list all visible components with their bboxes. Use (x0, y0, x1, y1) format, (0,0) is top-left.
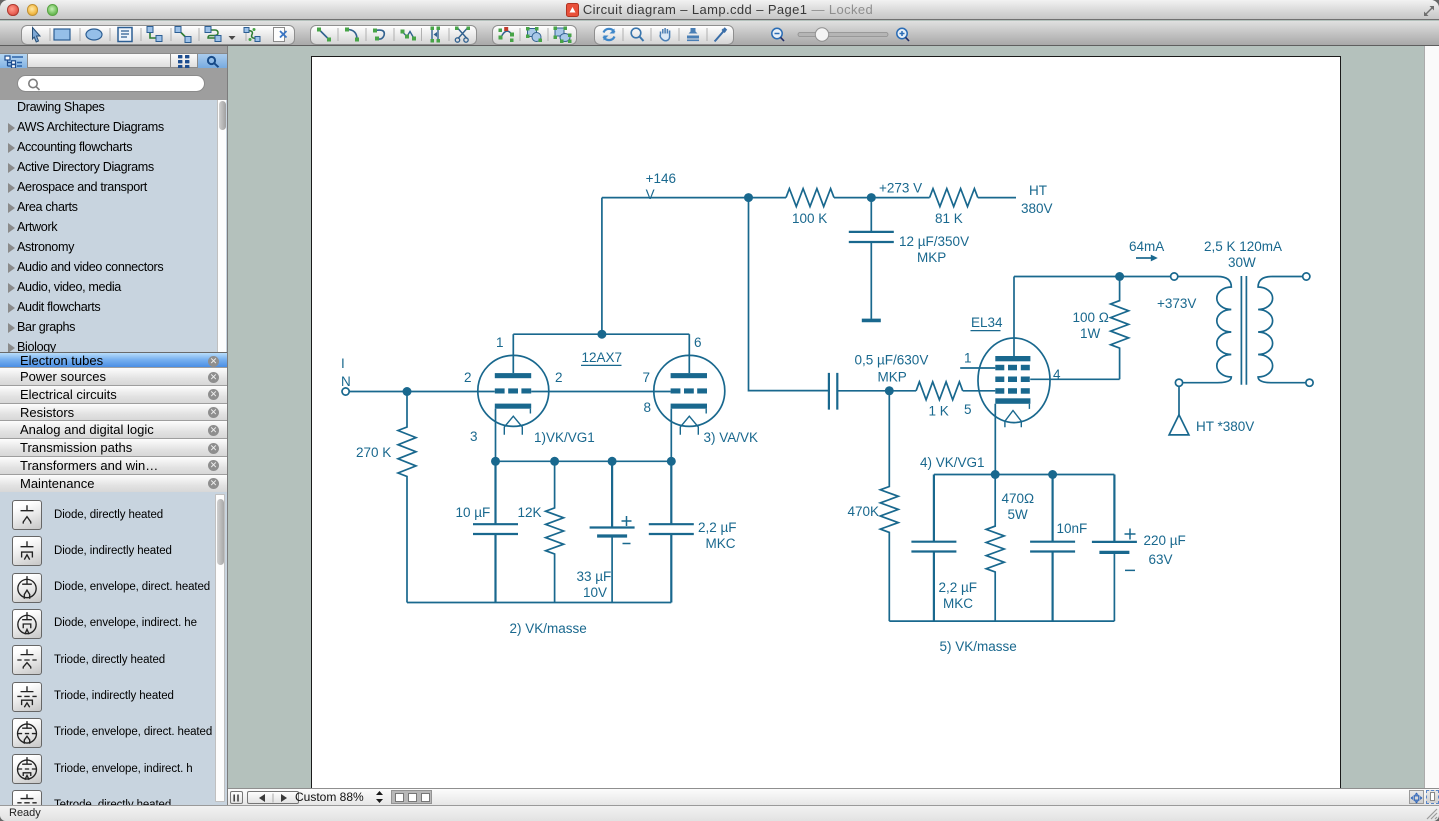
label 2) VK/masse (510, 621, 587, 636)
capacitor 2,2uF MKC left (649, 461, 694, 602)
resistor 270K (398, 392, 416, 603)
label 1 K (929, 404, 949, 419)
wire cap to grid node (837, 390, 916, 392)
arrow 64mA (1136, 255, 1158, 262)
label 33 uF 10V (577, 569, 612, 600)
terminal secondary top (1303, 273, 1310, 280)
wire tube1 cathode riser (495, 409, 497, 462)
connector line tool (175, 27, 191, 43)
zoom out button (772, 28, 784, 41)
label pin6 (694, 335, 702, 350)
label 0,5 uF/630V MKP (855, 353, 929, 385)
terminal secondary bottom (1306, 379, 1313, 386)
scissors tool (455, 27, 470, 43)
label 3) VA/VK (704, 430, 759, 445)
resistor 100K (786, 189, 834, 207)
label pin3 (470, 429, 478, 444)
wire cathode bus section 4 (934, 474, 1115, 476)
tube V2 EL34 pentode (978, 338, 1050, 427)
label 100ohm 1W (1073, 310, 1109, 341)
HT ground triangle (1169, 415, 1189, 435)
resistor 12K (546, 461, 564, 602)
label 100 K (792, 211, 827, 226)
terminal primary top (1171, 273, 1178, 280)
edit shape tool (526, 27, 542, 42)
label 2,2 uF MKC right (939, 580, 978, 611)
label 1)VK/VG1 (534, 430, 595, 445)
text tool (118, 28, 132, 42)
resistor 81K (930, 189, 978, 207)
label 12AX7 (581, 350, 622, 365)
capacitor 0,5uF/630V coupling (829, 373, 837, 410)
wire tube1 anode riser pin1 (512, 334, 514, 373)
split tool (431, 27, 441, 43)
label pin2 right (555, 370, 563, 385)
capacitor 33uF electrolytic (590, 461, 635, 602)
dropdown arrow (229, 36, 236, 40)
label +146 V (646, 171, 676, 202)
connector curve tool (244, 28, 260, 42)
zoom slider (798, 28, 888, 41)
wire pin4 feedback (1030, 378, 1119, 380)
label EL34 (971, 315, 1004, 331)
resistor 100ohm 1W (1111, 277, 1129, 380)
node grid/470K junction (885, 386, 894, 395)
node cathode bus dots (491, 457, 676, 466)
input terminal IN (342, 388, 349, 395)
connector rounded tool (205, 27, 221, 42)
wire tube2 anode riser pin6 (688, 334, 690, 373)
wire input to grids (349, 391, 670, 393)
capacitor 2,2uF MKC right (911, 475, 956, 622)
label 12uF/350V MKP (899, 234, 969, 265)
wire signal tap riser (749, 198, 829, 391)
label +373V (1157, 296, 1196, 311)
wire anode tie bar (513, 333, 689, 335)
capacitor 220uF/63V electrolytic (1092, 475, 1137, 622)
label pin8 (644, 400, 652, 415)
node anode tie junction (597, 330, 606, 339)
wire anode to transformer (1014, 276, 1171, 278)
wire +146V riser (601, 198, 603, 335)
node B+ tap junction (744, 193, 753, 202)
label 64mA (1129, 239, 1164, 254)
label +273 V (879, 181, 922, 196)
label I N (341, 356, 351, 389)
terminal primary bottom (1175, 379, 1182, 386)
select tool (33, 28, 41, 43)
label HT 380V (1021, 183, 1053, 216)
node input/270K junction (403, 387, 412, 396)
zoom tool (631, 28, 643, 41)
tube V1b 12AX7 triode (654, 355, 725, 434)
resistor 1K (916, 382, 963, 400)
wire HT return drop (1178, 386, 1180, 415)
ellipse tool (86, 29, 102, 40)
line shape tool (317, 28, 331, 42)
label 470ohm 5W (1002, 491, 1035, 522)
label 10nF (1057, 521, 1088, 536)
ground (862, 319, 881, 323)
wire cathode bus section 1 (496, 460, 672, 462)
label pin5 EL34 (964, 402, 972, 417)
label 470K (848, 504, 880, 519)
label HT *380V (1196, 419, 1254, 434)
connector elbow tool (147, 27, 162, 42)
tube V1a 12AX7 triode (478, 355, 549, 434)
label 2,5 K 120mA 30W (1204, 239, 1282, 270)
stamp tool (687, 28, 699, 41)
pan tool (660, 28, 669, 41)
zoom in button (897, 28, 909, 41)
wire 100K to +273V (834, 197, 930, 199)
delete tool (274, 28, 287, 42)
label 5) VK/masse (940, 639, 1017, 654)
capacitor 10uF (473, 461, 518, 602)
reshape tool (499, 27, 515, 42)
label 220 uF 63V (1144, 533, 1186, 567)
wire +146V rail (602, 197, 786, 199)
node section4 bus dots (991, 470, 1057, 479)
rect tool (54, 29, 70, 40)
curve tool (373, 29, 384, 41)
resistor 470ohm 5W (986, 475, 1004, 622)
label 4) VK/VG1 (920, 455, 985, 470)
wire tube2 cathode riser (670, 409, 672, 462)
label pin2 left (464, 370, 472, 385)
label pin7 (643, 370, 651, 385)
wire EL34 pin1 stub (960, 367, 995, 369)
capacitor 10nF (1030, 475, 1075, 622)
eyedropper tool (715, 28, 727, 41)
wire EL34 anode riser (1013, 277, 1015, 357)
label 2,2 uF MKC left (698, 520, 737, 551)
wire ground bus section 5 (889, 620, 1114, 622)
capacitor 12uF/350V (849, 198, 894, 319)
transformer T1 primary winding (1178, 277, 1232, 383)
label pin1 tube1 (496, 335, 504, 350)
rotate tool (604, 29, 615, 41)
label 81 K (935, 211, 963, 226)
label pin4 EL34 (1053, 367, 1061, 382)
wire ground bus section 2 (407, 602, 671, 604)
label 10 uF (456, 505, 491, 520)
wire EL34 cathode riser (994, 404, 996, 475)
group tool (554, 27, 572, 44)
wire 81K to HT (978, 197, 1016, 199)
label 270 K (356, 445, 391, 460)
resistor 470K (880, 391, 898, 621)
wire 1K to EL34 grid pin5 (963, 390, 996, 392)
transformer T1 secondary winding (1258, 277, 1306, 383)
node +273V junction (867, 193, 876, 202)
polyline tool (401, 30, 417, 41)
label 12K (518, 505, 542, 520)
label pin1 EL34 (964, 351, 972, 366)
transformer T1 core (1241, 276, 1246, 385)
arc tool (345, 28, 359, 42)
node 64mA junction (1115, 272, 1124, 281)
